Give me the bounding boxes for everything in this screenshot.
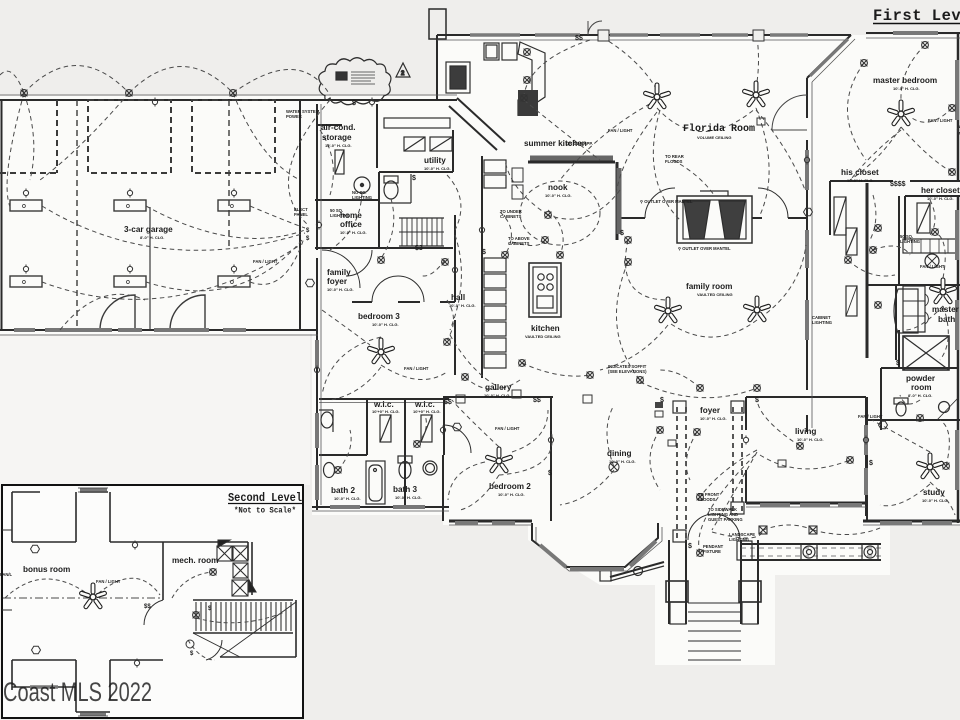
svg-text:3-car garage: 3-car garage <box>124 225 173 234</box>
svg-text:VAULTED CEILING: VAULTED CEILING <box>697 292 733 297</box>
svg-text:bath 2: bath 2 <box>331 486 356 495</box>
svg-text:⚲ OUTLET OVER MANTEL: ⚲ OUTLET OVER MANTEL <box>678 246 731 251</box>
svg-text:*Not to Scale*: *Not to Scale* <box>234 507 296 516</box>
svg-text:FAN/L: FAN/L <box>0 572 13 577</box>
svg-text:LIGHTING: LIGHTING <box>812 320 832 325</box>
svg-text:Florida Room: Florida Room <box>683 123 755 135</box>
svg-text:10'-0" H. CLG.: 10'-0" H. CLG. <box>372 322 399 327</box>
svg-text:CABINETS: CABINETS <box>508 241 530 246</box>
svg-text:master: master <box>932 305 960 314</box>
svg-text:w.i.c.: w.i.c. <box>373 400 394 409</box>
svg-text:dining: dining <box>607 449 632 458</box>
svg-text:FAN / LIGHT: FAN / LIGHT <box>404 366 429 371</box>
svg-text:10'-0" H. CLG.: 10'-0" H. CLG. <box>700 416 727 421</box>
svg-text:CABINETS: CABINETS <box>500 214 522 219</box>
svg-text:FAN / LIGHT: FAN / LIGHT <box>608 128 633 133</box>
svg-text:$: $ <box>896 360 900 367</box>
svg-text:O: O <box>230 204 234 210</box>
svg-text:room: room <box>911 383 931 392</box>
svg-text:FAN / LIGHT: FAN / LIGHT <box>920 264 945 269</box>
svg-text:hall: hall <box>451 293 465 302</box>
svg-text:VOLUME CEILING: VOLUME CEILING <box>697 135 731 140</box>
svg-text:$: $ <box>620 230 624 237</box>
svg-text:10'-0" H. CLG.: 10'-0" H. CLG. <box>340 230 367 235</box>
svg-text:master bedroom: master bedroom <box>873 76 937 85</box>
svg-text:bath: bath <box>938 315 955 324</box>
svg-text:$: $ <box>869 460 873 467</box>
svg-text:10'-0" H. CLG.: 10'-0" H. CLG. <box>797 437 824 442</box>
svg-text:$: $ <box>482 249 486 256</box>
svg-text:10'-0" H. CLG.: 10'-0" H. CLG. <box>922 498 949 503</box>
svg-text:LIGHTING: LIGHTING <box>900 239 920 244</box>
svg-text:storage: storage <box>322 133 352 142</box>
svg-text:FAN / LIGHT: FAN / LIGHT <box>96 579 121 584</box>
svg-text:$3: $3 <box>415 245 423 252</box>
svg-text:FAN / LIGHT: FAN / LIGHT <box>858 414 883 419</box>
svg-text:gallery: gallery <box>485 383 512 392</box>
svg-text:$: $ <box>352 100 356 107</box>
svg-text:10'+0" H. CLG.: 10'+0" H. CLG. <box>413 409 441 414</box>
svg-text:foyer: foyer <box>327 277 348 286</box>
svg-text:10'-0" H. CLG.: 10'-0" H. CLG. <box>484 393 511 398</box>
svg-text:office: office <box>340 220 362 229</box>
svg-text:FAN / LIGHT: FAN / LIGHT <box>495 426 520 431</box>
svg-text:10'-0" H. CLG.: 10'-0" H. CLG. <box>545 193 572 198</box>
svg-text:foyer: foyer <box>700 406 721 415</box>
svg-text:summer kitchen: summer kitchen <box>524 139 587 148</box>
svg-text:10'-0" H. CLG.: 10'-0" H. CLG. <box>847 178 874 183</box>
svg-text:FAN / LIGHT: FAN / LIGHT <box>928 118 953 123</box>
svg-text:study: study <box>923 488 945 497</box>
svg-text:⚲ OUTLET OVER MANTEL: ⚲ OUTLET OVER MANTEL <box>640 199 693 204</box>
svg-text:$$: $$ <box>144 604 151 610</box>
svg-text:$$: $$ <box>575 35 583 42</box>
svg-text:powder: powder <box>906 374 936 383</box>
svg-text:bath 3: bath 3 <box>393 485 418 494</box>
svg-text:utility: utility <box>424 156 446 165</box>
svg-text:her closet: her closet <box>921 186 960 195</box>
svg-text:10'-0" H. CLG.: 10'-0" H. CLG. <box>327 287 354 292</box>
svg-text:First Level: First Level <box>873 7 960 25</box>
svg-text:10'-0" H. CLG.: 10'-0" H. CLG. <box>927 196 954 201</box>
svg-text:VAULTED CEILING: VAULTED CEILING <box>525 334 561 339</box>
svg-text:FLOODS: FLOODS <box>698 497 716 502</box>
svg-text:10'-0" H. CLG.: 10'-0" H. CLG. <box>609 459 636 464</box>
svg-text:$: $ <box>660 397 664 404</box>
svg-text:air-cond.: air-cond. <box>321 123 356 132</box>
svg-text:10'+0" H. CLG.: 10'+0" H. CLG. <box>372 409 400 414</box>
svg-text:10'-0" H. CLG.: 10'-0" H. CLG. <box>424 166 451 171</box>
svg-text:family room: family room <box>686 282 732 291</box>
svg-text:$$: $$ <box>444 399 452 406</box>
svg-text:home: home <box>340 211 362 220</box>
svg-text:8'-0" H. CLG.: 8'-0" H. CLG. <box>140 235 164 240</box>
svg-text:10'-0" H. CLG.: 10'-0" H. CLG. <box>334 496 361 501</box>
svg-text:10'-0" H. CLG.: 10'-0" H. CLG. <box>893 86 920 91</box>
svg-text:mech. room: mech. room <box>172 556 218 565</box>
svg-text:$: $ <box>688 543 692 550</box>
svg-text:GUEST PARKING: GUEST PARKING <box>708 517 743 522</box>
svg-text:10'-0" H. CLG.: 10'-0" H. CLG. <box>449 303 476 308</box>
svg-text:$$$$: $$$$ <box>890 181 906 188</box>
svg-text:10'-0" H. CLG.: 10'-0" H. CLG. <box>325 143 352 148</box>
svg-text:w.i.c.: w.i.c. <box>414 400 435 409</box>
svg-text:10'-0" H. CLG.: 10'-0" H. CLG. <box>395 495 422 500</box>
svg-text:O: O <box>126 204 130 210</box>
svg-text:O: O <box>22 204 26 210</box>
svg-text:LIGHTING: LIGHTING <box>352 195 372 200</box>
svg-text:nook: nook <box>548 183 568 192</box>
svg-text:his closet: his closet <box>841 168 879 177</box>
svg-text:$: $ <box>412 175 416 182</box>
svg-text:(SEE ELEVATIONS): (SEE ELEVATIONS) <box>608 369 647 374</box>
svg-text:POWER: POWER <box>286 114 302 119</box>
svg-text:FLOODS: FLOODS <box>665 159 683 164</box>
svg-text:$: $ <box>755 397 759 404</box>
svg-text:family: family <box>327 268 351 277</box>
svg-text:bonus room: bonus room <box>23 565 70 574</box>
svg-text:PANEL: PANEL <box>294 212 308 217</box>
svg-text:living: living <box>795 427 816 436</box>
svg-text:$: $ <box>548 470 552 477</box>
svg-text:LIGHTING: LIGHTING <box>729 537 749 542</box>
svg-text:bedroom 3: bedroom 3 <box>358 312 400 321</box>
svg-text:FAN / LIGHT: FAN / LIGHT <box>253 259 278 264</box>
svg-text:bedroom 2: bedroom 2 <box>489 482 531 491</box>
svg-text:Coast MLS 2022: Coast MLS 2022 <box>3 677 152 707</box>
svg-text:O: O <box>126 280 130 286</box>
svg-text:FIXTURE: FIXTURE <box>703 549 721 554</box>
svg-text:8'-0" H. CLG.: 8'-0" H. CLG. <box>908 393 932 398</box>
svg-text:O: O <box>22 280 26 286</box>
svg-text:10'-0" H. CLG.: 10'-0" H. CLG. <box>498 492 525 497</box>
svg-text:kitchen: kitchen <box>531 324 560 333</box>
svg-text:$$: $$ <box>533 397 541 404</box>
